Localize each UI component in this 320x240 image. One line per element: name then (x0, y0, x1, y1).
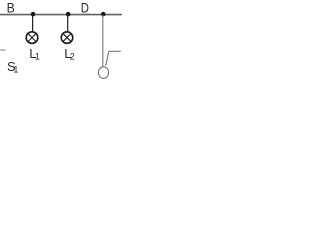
svg-text:2: 2 (70, 52, 75, 62)
svg-text:1: 1 (35, 52, 40, 62)
svg-text:1: 1 (13, 65, 18, 75)
svg-text:B: B (7, 0, 15, 15)
svg-text:D: D (81, 0, 89, 15)
